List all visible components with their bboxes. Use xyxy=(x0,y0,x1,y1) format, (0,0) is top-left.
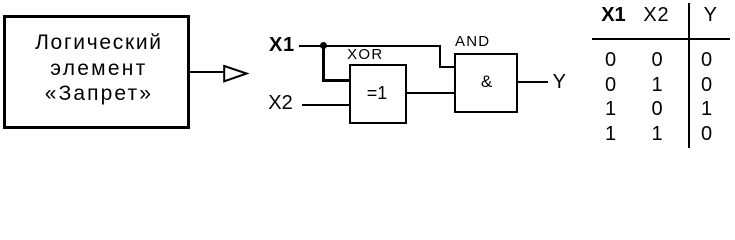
AND gate label xyxy=(455,34,490,49)
arrow shaft xyxy=(190,71,224,73)
AND gate box U2 xyxy=(454,53,518,113)
title box xyxy=(3,15,190,130)
label X1 xyxy=(269,35,295,55)
truth table header X2 xyxy=(643,5,669,25)
wire XOR output to AND lower input xyxy=(406,92,454,94)
truth table column X1 values xyxy=(601,48,621,146)
arrow head xyxy=(222,63,249,84)
truth table column Y values xyxy=(697,48,717,146)
truth table column X2 values xyxy=(647,48,667,146)
XOR gate box U1 xyxy=(349,64,407,125)
truth table header Y xyxy=(704,5,717,25)
XOR gate =1 xyxy=(357,84,397,102)
AND gate ampersand xyxy=(467,73,507,90)
truth table vertical divider xyxy=(688,3,690,148)
junction dot xyxy=(320,42,327,49)
wire X1 horizontal xyxy=(299,45,441,47)
wire X1 branch into AND upper input xyxy=(439,66,454,68)
XOR gate label xyxy=(347,47,383,62)
label X2 xyxy=(268,93,292,113)
truth table header underline xyxy=(592,38,730,40)
wire X2 to XOR lower input xyxy=(302,104,350,106)
truth table header X1 xyxy=(601,5,625,25)
wire junction drop xyxy=(322,46,324,82)
wire X1 branch vertical to AND xyxy=(439,45,441,68)
label Y xyxy=(553,72,566,92)
wire into XOR upper input xyxy=(322,79,349,81)
title text xyxy=(5,30,192,107)
wire AND output xyxy=(517,81,548,83)
